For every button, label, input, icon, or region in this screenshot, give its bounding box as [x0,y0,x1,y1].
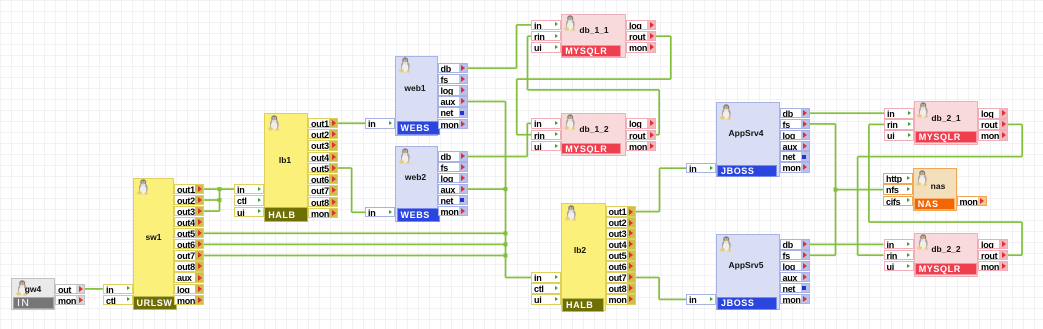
component nas (orange box) [0,0,1043,1]
component web2 (lav box) [0,0,1043,1]
wire aux bus: web1.aux/web2.aux/sw1.out5-7 - lb2.in [204,101,531,279]
wire gw4.out - sw1.in [85,288,103,290]
wire web2.db - db_1_2.in [468,123,532,158]
wire db_2_2.rout - db_2_1.rin [868,124,1023,257]
wire lb2.out7 - AppSrv5.in [636,277,687,301]
wire lb1.out1 - web1.in [338,122,365,124]
component gw4 (gray box) [0,0,1043,1]
component web1 (lav box) [0,0,1043,1]
component lb1 (yellow box) [0,0,1043,1]
wire lb1.out5 - web2.in [338,167,366,213]
component db_2_1 (pink box) [0,0,1043,1]
wire db_1_1.rout - db_1_2.rin [516,35,672,135]
wire web1.db - db_1_1.in [468,24,532,69]
wire db_2_1.rout - db_2_2.rin [857,124,1023,257]
component db_2_2 (pink box) [0,0,1043,1]
wire lb2.out1 - AppSrv4.in [636,167,687,212]
wire AppSrv4.fs - nas.nfs / AppSrv5.fs [810,123,884,256]
component db_1_2 (pink box) [0,0,1043,1]
wire db_1_1.rin - db_1_2.rout [527,35,660,135]
component sw1 (yellow box) [0,0,1043,1]
component AppSrv4 (lav box) [0,0,1043,1]
component AppSrv5 (lav box) [0,0,1043,1]
wire AppSrv5.db - db_2_2.in [810,244,884,246]
wire AppSrv4.db - db_2_1.in [810,112,885,114]
component lb2 (yellow box) [0,0,1043,1]
wire sw1.out1/2/3 bus - lb1.in [204,187,234,212]
component db_1_1 (pink box) [0,0,1043,1]
